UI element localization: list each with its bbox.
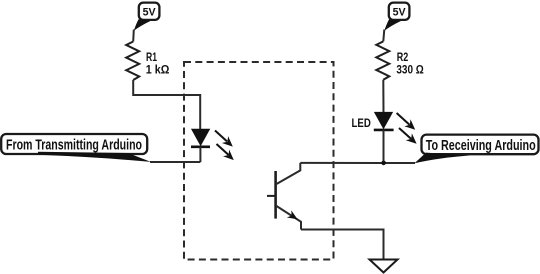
power flag 5V right bbox=[384, 3, 409, 31]
svg-text:LED: LED bbox=[352, 116, 372, 130]
resistor R1 bbox=[126, 42, 169, 81]
net flag From Transmitting Arduino bbox=[1, 134, 151, 162]
junction node bbox=[381, 161, 386, 166]
label LED bbox=[352, 116, 372, 130]
svg-text:To Receiving Arduino: To Receiving Arduino bbox=[426, 138, 536, 154]
ground bbox=[370, 260, 398, 273]
optocoupler U1 dashed boundary bbox=[184, 62, 334, 260]
LED D1 light emission arrows bbox=[215, 131, 234, 161]
LED D2 indicator bbox=[374, 112, 394, 163]
wire Q1 collector to junction bbox=[300, 162, 415, 164]
net flag To Receiving Arduino bbox=[415, 135, 539, 164]
svg-text:1 kΩ: 1 kΩ bbox=[146, 63, 170, 77]
wire R1 to LED D1 bbox=[133, 80, 200, 130]
svg-text:5V: 5V bbox=[393, 6, 407, 18]
wire R2 to LED D2 bbox=[382, 80, 384, 113]
wire 5V to R1 bbox=[132, 30, 135, 42]
resistor R2 bbox=[376, 41, 424, 80]
phototransistor Q1 bbox=[267, 163, 301, 230]
svg-text:5V: 5V bbox=[143, 6, 157, 18]
power flag 5V left bbox=[134, 3, 160, 31]
svg-text:From Transmitting Arduino: From Transmitting Arduino bbox=[6, 138, 142, 154]
wire Q1 emitter to ground bbox=[301, 230, 384, 260]
wire LED D1 to From flag bbox=[150, 161, 200, 163]
svg-text:330 Ω: 330 Ω bbox=[396, 63, 423, 77]
wire 5V to R2 bbox=[383, 30, 384, 42]
LED D1 optocoupler emitter diode bbox=[191, 129, 210, 162]
LED D2 light emission arrows bbox=[397, 113, 417, 144]
